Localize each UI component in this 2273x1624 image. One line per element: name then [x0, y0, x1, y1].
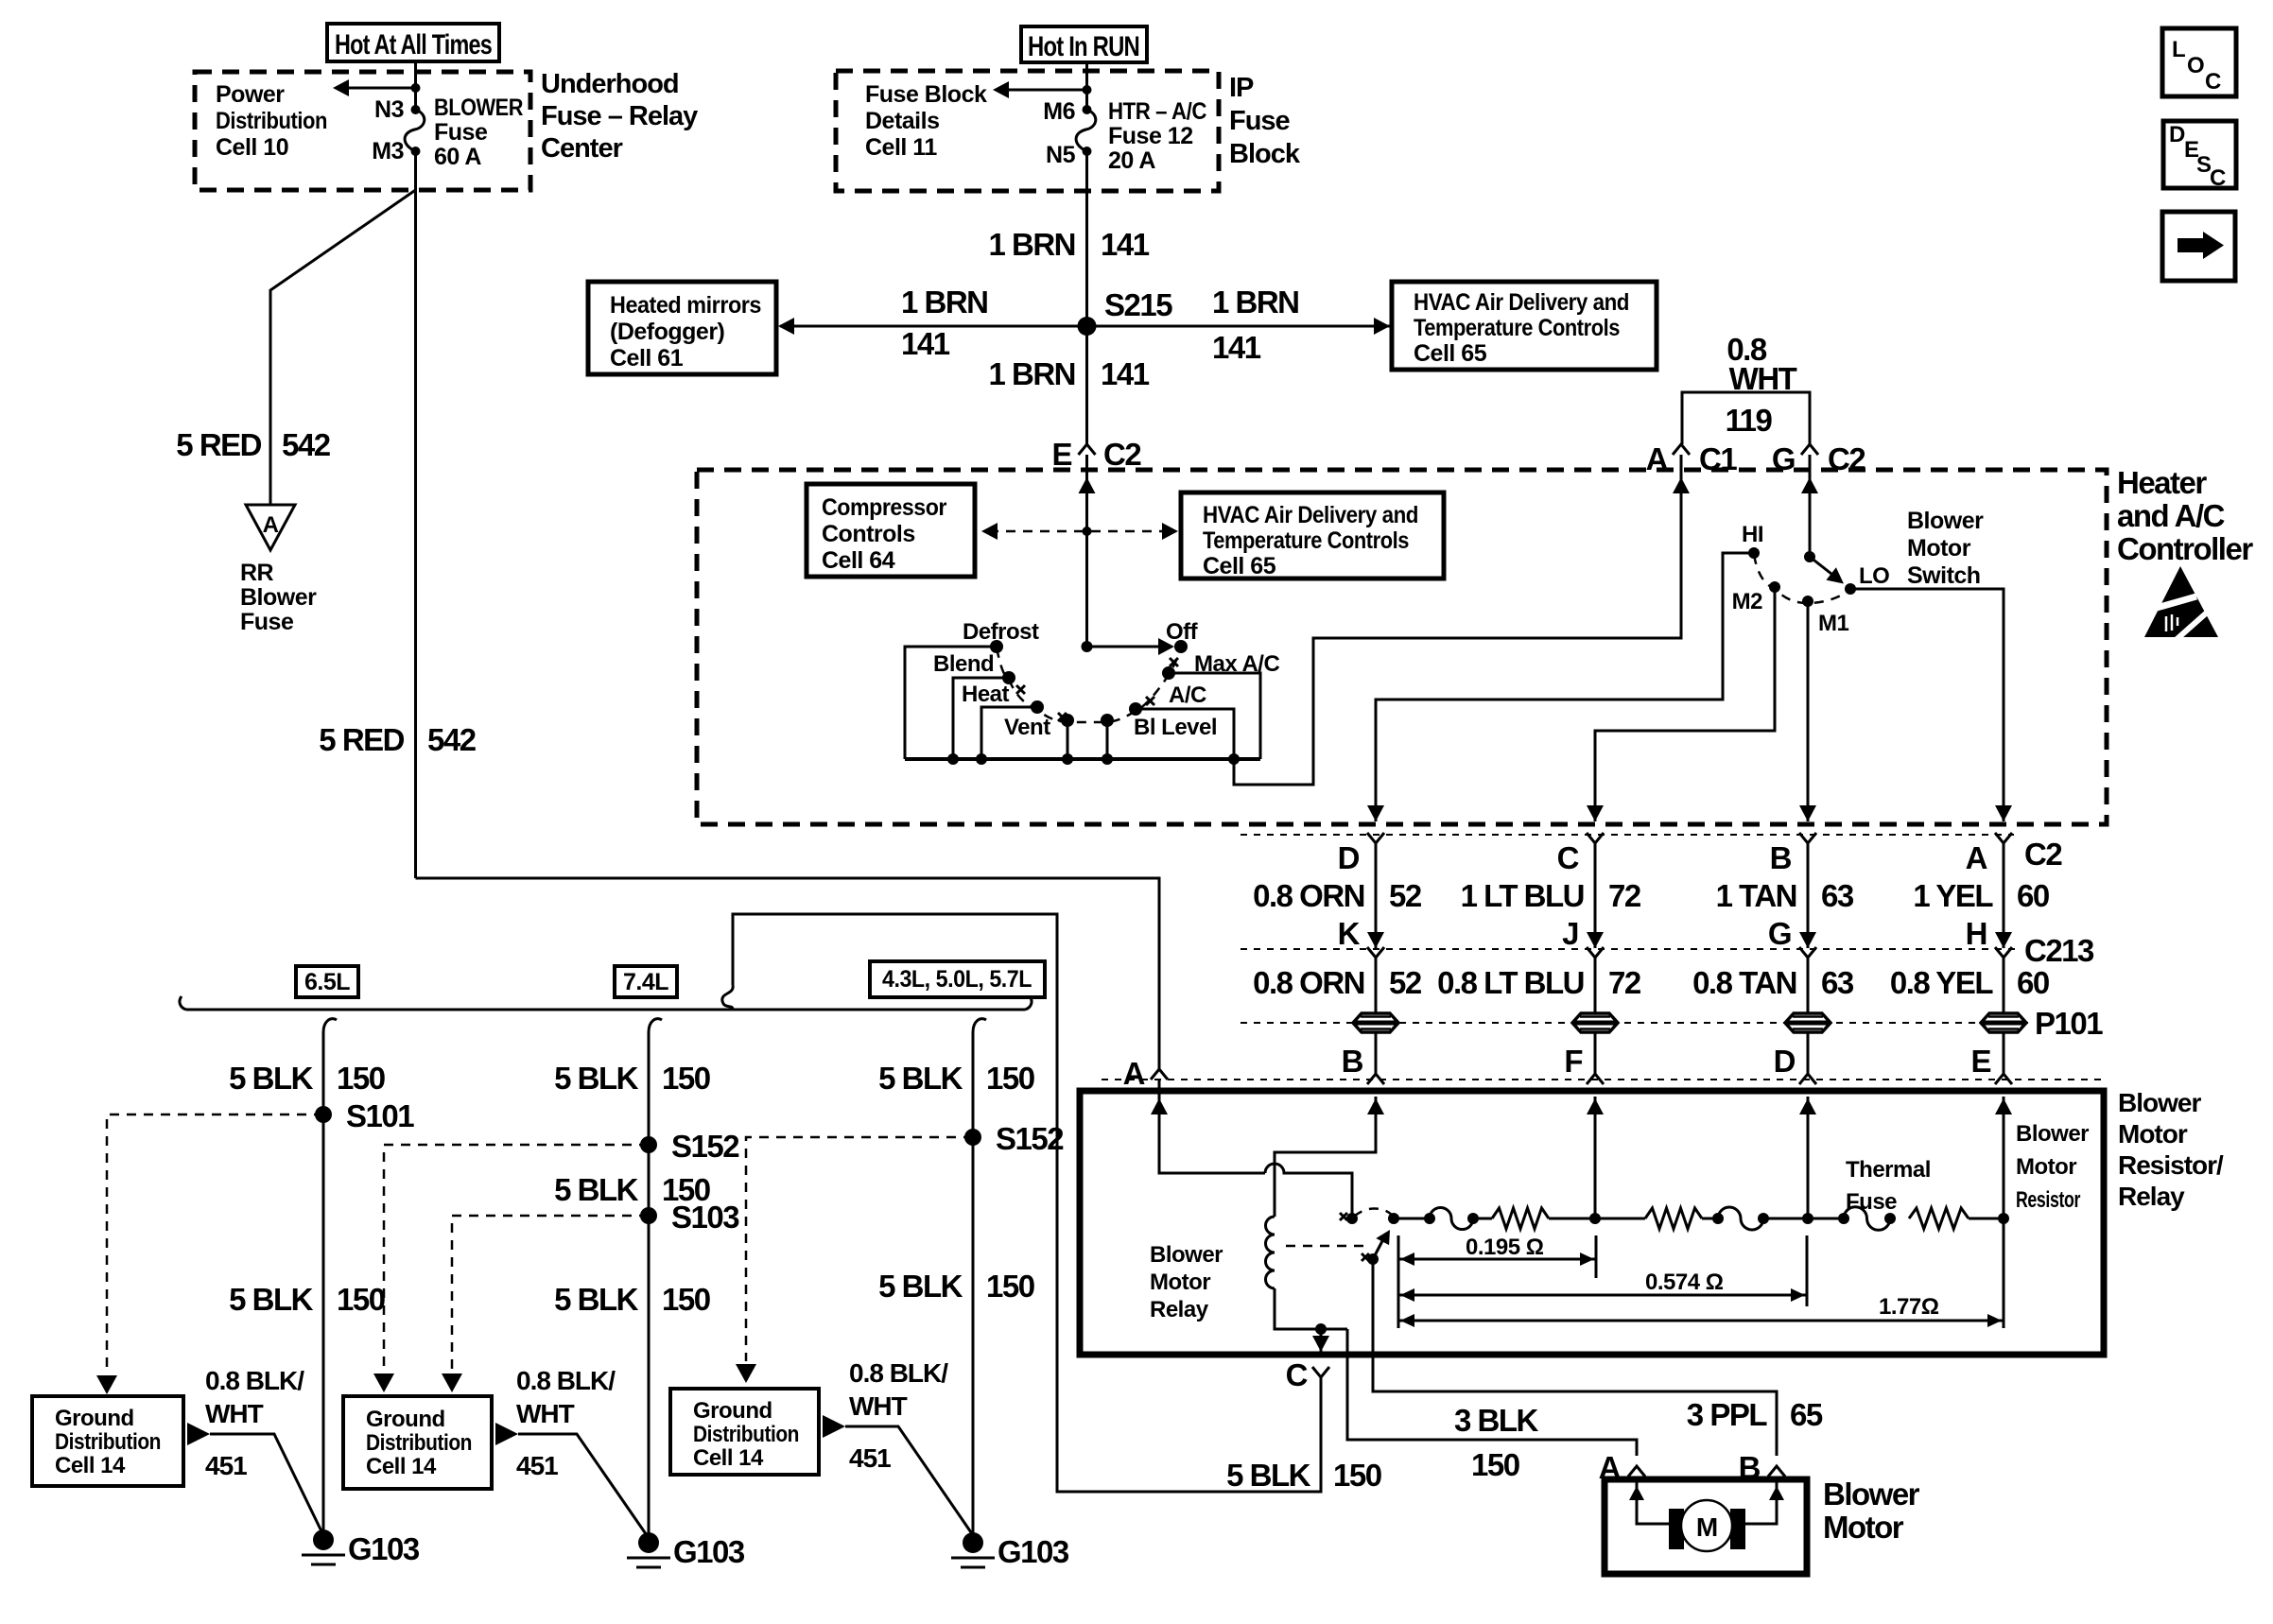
- svg-text:WHT: WHT: [1729, 361, 1797, 396]
- svg-text:0.8 BLK/: 0.8 BLK/: [516, 1366, 616, 1395]
- wire 0.8 BLK/WHT 451 from box 2 to G103: [495, 1423, 518, 1445]
- wire: [2003, 958, 2005, 1014]
- terminal F of blower resistor connector: [1594, 1031, 1597, 1074]
- svg-text:5 BLK: 5 BLK: [554, 1282, 639, 1317]
- wire: 4.3L ground drop with curl: [973, 1019, 986, 1032]
- Heater and A/C Controller dashed box: [697, 470, 2107, 824]
- svg-text:LO: LO: [1859, 563, 1889, 589]
- dashed wiper arc: [997, 648, 1181, 722]
- svg-text:Ground: Ground: [693, 1398, 772, 1424]
- svg-text:150: 150: [337, 1282, 385, 1317]
- svg-text:1 BRN: 1 BRN: [1212, 285, 1299, 320]
- svg-text:Heat: Heat: [962, 682, 1010, 707]
- mode switch wiper feed arrow to Off: [1082, 641, 1093, 652]
- relay coil: [1266, 1217, 1275, 1288]
- wiper x marks: [1016, 658, 1178, 721]
- wire: 6.5L ground drop with curl: [323, 1019, 337, 1032]
- wire: F into resistor chain: [1594, 1097, 1597, 1218]
- svg-text:1.77Ω: 1.77Ω: [1879, 1294, 1939, 1320]
- wire: resistor C terminal ground run (5 BLK): [733, 914, 1321, 1492]
- blower switch contact M2: [1769, 581, 1780, 593]
- svg-text:Bl Level: Bl Level: [1134, 715, 1217, 740]
- svg-text:1 LT BLU: 1 LT BLU: [1461, 878, 1584, 913]
- svg-text:60: 60: [2017, 965, 2049, 1000]
- svg-text:IP: IP: [1229, 73, 1254, 103]
- svg-text:Ground: Ground: [366, 1407, 445, 1432]
- label Underhood Fuse - Relay Center: [541, 69, 698, 164]
- svg-text:Temperature Controls: Temperature Controls: [1414, 315, 1620, 341]
- svg-text:Motor: Motor: [2016, 1154, 2076, 1180]
- svg-text:Cell 14: Cell 14: [366, 1454, 437, 1479]
- Ground Distribution Cell 14 box 2: [343, 1396, 492, 1489]
- svg-text:451: 451: [205, 1451, 247, 1480]
- svg-text:C: C: [1557, 840, 1579, 875]
- blower switch wiper pivot: [1804, 551, 1815, 562]
- blower switch contact M1: [1802, 596, 1813, 607]
- dimension 1.77 ohm: [1398, 1320, 2004, 1322]
- svg-text:Temperature Controls: Temperature Controls: [1203, 527, 1409, 554]
- svg-text:G103: G103: [348, 1531, 420, 1566]
- svg-text:1 BRN: 1 BRN: [988, 227, 1075, 262]
- svg-text:A: A: [263, 512, 279, 538]
- label 0.8 LT BLU 72: [1437, 965, 1641, 1000]
- svg-text:Blower: Blower: [240, 584, 317, 611]
- connector A (resistor box): [1151, 1069, 1168, 1080]
- label 3 BLK 150: [1454, 1403, 1539, 1482]
- svg-text:Distribution: Distribution: [366, 1430, 472, 1456]
- svg-text:451: 451: [516, 1451, 558, 1480]
- connector C2 row (thin dashed): [1241, 834, 2014, 836]
- label 5 RED 542 (main): [319, 722, 476, 757]
- label 1 BRN 141 (left of S215): [901, 285, 988, 361]
- grommet P101: [1785, 1013, 1831, 1032]
- splice S215: [1078, 317, 1097, 336]
- RR Blower Fuse triangle A: [246, 505, 295, 550]
- svg-text:(Defogger): (Defogger): [610, 319, 725, 345]
- svg-text:D: D: [2169, 122, 2185, 147]
- engine ground bus: [186, 1009, 1025, 1011]
- svg-text:S152: S152: [671, 1129, 739, 1164]
- svg-text:Cell 14: Cell 14: [693, 1445, 764, 1471]
- ground G103: [313, 1529, 334, 1550]
- svg-text:150: 150: [662, 1282, 710, 1317]
- svg-text:Center: Center: [541, 133, 623, 164]
- svg-text:BLOWER: BLOWER: [434, 95, 523, 121]
- svg-text:A: A: [1646, 441, 1668, 476]
- dashed contact throw arc: [1354, 1208, 1392, 1217]
- wire: mode switch bus output to connector A C1: [1234, 455, 1681, 785]
- svg-text:5 RED: 5 RED: [319, 722, 404, 757]
- label 1 LT BLU 72: [1461, 878, 1641, 913]
- wire: E/C2 into controller to mode switch wiper: [1085, 455, 1088, 647]
- svg-text:J: J: [1562, 916, 1578, 951]
- svg-text:20 A: 20 A: [1108, 147, 1155, 174]
- svg-text:C2: C2: [2024, 837, 2062, 872]
- label Heater and A/C Controller: [2117, 465, 2253, 566]
- svg-text:1 BRN: 1 BRN: [988, 356, 1075, 391]
- svg-text:Cell 10: Cell 10: [216, 134, 288, 161]
- svg-text:63: 63: [1821, 965, 1854, 1000]
- Power Distribution Cell 10 reference: [216, 81, 327, 161]
- svg-text:D: D: [1774, 1044, 1796, 1079]
- fuse HTR-A/C Fuse 12 20 A: [1076, 110, 1096, 151]
- svg-text:Motor: Motor: [1907, 535, 1971, 561]
- svg-text:0.8 BLK/: 0.8 BLK/: [205, 1366, 304, 1395]
- forward arrow legend box: [2162, 212, 2235, 281]
- svg-text:G: G: [1772, 441, 1795, 476]
- svg-text:52: 52: [1389, 965, 1422, 1000]
- svg-text:6.5L: 6.5L: [304, 969, 350, 995]
- relay fixed contact: [1346, 1213, 1358, 1224]
- ground G103: [963, 1532, 983, 1553]
- svg-text:0.8 ORN: 0.8 ORN: [1253, 965, 1364, 1000]
- IP Fuse Block dashed box: [836, 71, 1219, 191]
- terminal G of connector C213: [1799, 947, 1816, 958]
- wire: [1807, 958, 1810, 1014]
- wire: [1969, 1218, 2004, 1220]
- svg-text:150: 150: [1471, 1447, 1519, 1482]
- wire: D to C213 K: [1375, 843, 1378, 948]
- HVAC Air Delivery and Temperature Controls Cell 65 box (controller): [1181, 492, 1444, 579]
- HVAC Air Delivery and Temperature Controls Cell 65 box (top): [1392, 282, 1657, 370]
- Ground Distribution Cell 14 box 1: [32, 1396, 183, 1486]
- svg-text:0.8 LT BLU: 0.8 LT BLU: [1437, 965, 1584, 1000]
- svg-text:Defrost: Defrost: [963, 619, 1039, 645]
- connector G C2: [1801, 444, 1818, 455]
- svg-text:5 RED: 5 RED: [176, 427, 261, 462]
- svg-text:5 BLK: 5 BLK: [229, 1282, 314, 1317]
- svg-text:Fuse: Fuse: [1229, 106, 1291, 136]
- wire: LO to terminal A: [1850, 589, 2004, 821]
- blower switch contact HI: [1748, 547, 1760, 559]
- svg-text:7.4L: 7.4L: [623, 969, 668, 995]
- svg-text:Hot In RUN: Hot In RUN: [1028, 31, 1139, 62]
- svg-text:RR: RR: [240, 560, 274, 586]
- terminal K of connector C213: [1367, 947, 1384, 958]
- svg-text:C: C: [1286, 1357, 1308, 1392]
- svg-text:4.3L, 5.0L, 5.7L: 4.3L, 5.0L, 5.7L: [882, 966, 1032, 993]
- label Blower Motor Relay: [1150, 1242, 1223, 1322]
- svg-text:Fuse Block: Fuse Block: [865, 81, 987, 108]
- terminal E of blower resistor connector: [2003, 1031, 2005, 1074]
- mode switch contact A/C: [1129, 702, 1142, 716]
- wire: feed to Power Distribution (arrow left): [342, 87, 416, 90]
- label IP Fuse Block: [1229, 73, 1301, 169]
- wire: Heat to bus: [981, 707, 1037, 759]
- jumper 0.8 WHT 119 between C1 and C2: [1682, 392, 1810, 444]
- wire: S215 splice horizontal: [780, 325, 1390, 328]
- svg-text:150: 150: [662, 1061, 710, 1096]
- label Blower Motor Switch: [1907, 508, 1984, 589]
- svg-text:S152: S152: [996, 1121, 1064, 1156]
- svg-text:Cell 61: Cell 61: [610, 345, 684, 371]
- dashed relay linkage: [1286, 1245, 1367, 1248]
- wire: A/C to bus: [1136, 709, 1234, 759]
- wire: [1473, 1218, 1492, 1220]
- svg-text:Motor: Motor: [1823, 1510, 1904, 1545]
- Compressor Controls Cell 64 box: [807, 484, 975, 577]
- wire: [1394, 1218, 1430, 1220]
- svg-text:65: 65: [1790, 1397, 1823, 1432]
- ESD warning symbol: [2144, 566, 2218, 642]
- svg-text:Distribution: Distribution: [693, 1422, 799, 1447]
- arrow to C terminal: [1320, 1329, 1323, 1352]
- svg-text:150: 150: [1333, 1458, 1381, 1493]
- ground G103: [638, 1532, 659, 1553]
- svg-text:HVAC Air Delivery and: HVAC Air Delivery and: [1414, 289, 1629, 316]
- svg-text:60: 60: [2017, 878, 2049, 913]
- svg-text:Fuse: Fuse: [434, 119, 488, 146]
- resistor element 1: [1492, 1208, 1549, 1229]
- terminal C of connector C2: [1587, 833, 1604, 843]
- wire: C to C213 J: [1594, 843, 1597, 948]
- wire 0.8 BLK/WHT 451 from box 3 to G103: [823, 1415, 845, 1438]
- svg-text:0.574 Ω: 0.574 Ω: [1645, 1270, 1724, 1295]
- engine option box 7.4L: [615, 966, 677, 997]
- engine option box 6.5L: [296, 966, 358, 997]
- svg-text:Ground: Ground: [55, 1406, 134, 1431]
- svg-text:Motor: Motor: [2118, 1119, 2188, 1149]
- svg-text:72: 72: [1608, 878, 1641, 913]
- splice S103: [640, 1207, 657, 1224]
- thermal fuse element 3: [1838, 1213, 1849, 1224]
- node E junction: [1998, 1213, 2009, 1224]
- svg-text:Cell 11: Cell 11: [865, 134, 937, 161]
- terminal A of blower motor: [1628, 1466, 1645, 1477]
- junction node: [1315, 1323, 1327, 1335]
- wire: B to C213 G: [1807, 843, 1810, 948]
- wire: E below node: [2003, 1218, 2005, 1328]
- svg-text:1 TAN: 1 TAN: [1716, 878, 1796, 913]
- wire: Max A/C to bus: [1169, 673, 1260, 759]
- Fuse Block Details Cell 11 reference: [865, 81, 987, 161]
- svg-text:F: F: [1564, 1044, 1582, 1079]
- svg-text:N5: N5: [1046, 142, 1076, 168]
- svg-text:C213: C213: [2024, 933, 2094, 968]
- mode switch contact Defrost: [990, 640, 1003, 653]
- grommet P101: [1353, 1013, 1398, 1032]
- svg-text:5 BLK: 5 BLK: [229, 1061, 314, 1096]
- svg-text:5 BLK: 5 BLK: [1226, 1458, 1311, 1493]
- splice S152 (4.3L): [964, 1129, 981, 1146]
- svg-text:542: 542: [427, 722, 477, 757]
- svg-text:M6: M6: [1043, 98, 1075, 125]
- terminal B of connector C2: [1799, 833, 1816, 843]
- label Blower Motor: [1823, 1477, 1920, 1545]
- svg-text:G103: G103: [998, 1534, 1069, 1569]
- svg-text:141: 141: [1212, 330, 1261, 365]
- svg-text:1 YEL: 1 YEL: [1913, 878, 1993, 913]
- svg-text:5 BLK: 5 BLK: [878, 1269, 963, 1304]
- wire: [1702, 1218, 1718, 1220]
- svg-text:141: 141: [1101, 356, 1150, 391]
- svg-text:141: 141: [1101, 227, 1150, 262]
- DESC legend box: [2163, 121, 2236, 191]
- blower switch contact LO: [1845, 583, 1856, 595]
- svg-text:G: G: [1768, 916, 1791, 951]
- svg-text:WHT: WHT: [205, 1399, 264, 1428]
- svg-text:Heated mirrors: Heated mirrors: [610, 292, 761, 319]
- splice S101: [315, 1106, 332, 1123]
- svg-text:WHT: WHT: [516, 1399, 575, 1428]
- mode switch contact Blend: [1002, 671, 1015, 684]
- wire: M1 to terminal B: [1807, 601, 1810, 821]
- svg-text:Underhood: Underhood: [541, 69, 679, 99]
- terminal D of connector C2: [1367, 833, 1384, 843]
- svg-text:P101: P101: [2035, 1006, 2103, 1041]
- svg-text:141: 141: [901, 326, 950, 361]
- wire: G/C2 down to wiper pivot: [1809, 455, 1812, 557]
- svg-text:1 BRN: 1 BRN: [901, 285, 988, 320]
- svg-text:5 BLK: 5 BLK: [554, 1172, 639, 1207]
- wire: A terminal into motor: [1637, 1477, 1669, 1524]
- svg-text:Fuse: Fuse: [1846, 1189, 1897, 1215]
- node D junction: [1802, 1213, 1813, 1224]
- wire: relay arm to blower motor B (3 PPL): [1373, 1259, 1777, 1456]
- svg-text:150: 150: [986, 1269, 1034, 1304]
- svg-text:C1: C1: [1699, 441, 1737, 476]
- svg-text:72: 72: [1608, 965, 1641, 1000]
- svg-text:3 PPL: 3 PPL: [1687, 1397, 1768, 1432]
- label Thermal Fuse: [1846, 1157, 1931, 1215]
- wire: M2 to terminal C: [1595, 587, 1775, 821]
- wire: branch to RR Blower Fuse: [270, 190, 416, 505]
- resistor element 3: [1909, 1208, 1969, 1229]
- mode switch contact Max A/C: [1162, 666, 1175, 680]
- svg-text:0.8 YEL: 0.8 YEL: [1890, 965, 1993, 1000]
- svg-text:E: E: [1051, 437, 1071, 472]
- Heated mirrors (Defogger) Cell 61 box: [588, 282, 776, 374]
- label 5 BLK 150 (4.3L upper): [878, 1061, 1034, 1096]
- label 5 BLK 150 (7.4L upper): [554, 1061, 710, 1096]
- svg-text:Hot At All Times: Hot At All Times: [335, 29, 492, 60]
- wire: A into relay contact: [1159, 1080, 1265, 1173]
- grommet P101: [1981, 1013, 2026, 1032]
- svg-text:5 BLK: 5 BLK: [878, 1061, 963, 1096]
- node M3: [411, 147, 421, 156]
- svg-text:HVAC Air Delivery and: HVAC Air Delivery and: [1203, 502, 1418, 528]
- svg-text:HI: HI: [1742, 522, 1763, 547]
- label 5 BLK 150 (7.4L mid): [554, 1172, 710, 1207]
- label 1 BRN 141 (right of S215): [1212, 285, 1299, 365]
- label 1 BRN 141 (above S215): [988, 227, 1149, 262]
- mode switch common bus: [905, 757, 1260, 761]
- svg-text:S215: S215: [1104, 287, 1172, 322]
- wire: feed to Fuse Block Details (arrow left): [1002, 89, 1087, 92]
- label 1 BRN 141 (below S215): [988, 356, 1149, 391]
- label 1 TAN 63: [1716, 878, 1854, 913]
- svg-text:Fuse: Fuse: [240, 609, 294, 635]
- terminal B of blower resistor connector: [1375, 1031, 1378, 1074]
- dashed data link between Compressor Controls and HVAC boxes: [989, 530, 1175, 533]
- svg-text:Cell 64: Cell 64: [822, 547, 895, 574]
- svg-text:5 BLK: 5 BLK: [554, 1061, 639, 1096]
- svg-text:Fuse – Relay: Fuse – Relay: [541, 101, 698, 131]
- dashed switch arc: [1754, 555, 1848, 603]
- label Blower Motor Resistor/Relay: [2118, 1088, 2224, 1211]
- svg-text:Off: Off: [1166, 619, 1199, 645]
- terminal C of resistor box: [1312, 1367, 1329, 1377]
- svg-text:O: O: [2187, 53, 2204, 78]
- svg-text:451: 451: [849, 1443, 891, 1473]
- connector A C1: [1673, 444, 1690, 455]
- connector E C2 (controller): [1079, 444, 1096, 455]
- wire: Blend to bus: [953, 678, 1009, 759]
- label 1 YEL 60: [1913, 878, 2048, 913]
- svg-text:150: 150: [986, 1061, 1034, 1096]
- svg-text:0.195 Ω: 0.195 Ω: [1466, 1235, 1544, 1260]
- wire: [1594, 958, 1597, 1014]
- svg-text:Thermal: Thermal: [1846, 1157, 1931, 1183]
- mode switch contact Bi-Level mid: [1101, 714, 1114, 727]
- svg-text:Switch: Switch: [1907, 562, 1981, 589]
- dashed ground ref from S152: [384, 1145, 649, 1371]
- mode switch contact Off: [1174, 640, 1188, 653]
- connector C213 row (thin dashed): [1241, 948, 2016, 950]
- label Blower Motor Resistor (inside): [2016, 1121, 2089, 1213]
- svg-text:WHT: WHT: [849, 1391, 908, 1421]
- dimension 0.574 ohm: [1398, 1294, 1807, 1297]
- svg-text:Blower: Blower: [1907, 508, 1984, 534]
- wire: HI to terminal D: [1376, 553, 1754, 821]
- svg-text:Blend: Blend: [933, 651, 994, 677]
- svg-text:H: H: [1966, 916, 1987, 951]
- terminal A of connector C2: [1995, 833, 2012, 843]
- svg-text:0.8 BLK/: 0.8 BLK/: [849, 1358, 948, 1388]
- wire: B terminal into motor: [1745, 1477, 1777, 1524]
- dashed ground ref from S101: [107, 1114, 323, 1373]
- wire: fuse output down to S215 and on to controller: [1085, 151, 1088, 444]
- svg-text:S101: S101: [346, 1098, 414, 1133]
- wire: relay common to blower motor A (3 BLK): [1347, 1329, 1637, 1456]
- dashed ground ref from S152 (4.3L): [746, 1137, 973, 1361]
- wire: Vent to bus: [1067, 720, 1069, 759]
- svg-text:542: 542: [282, 427, 331, 462]
- svg-text:Fuse 12: Fuse 12: [1108, 123, 1193, 149]
- grommet line P101 (thin dashed): [1241, 1022, 2029, 1024]
- svg-text:A: A: [1966, 840, 1987, 875]
- svg-text:C: C: [2205, 69, 2221, 95]
- svg-text:E: E: [1970, 1044, 1990, 1079]
- Blower Motor Resistor/Relay box: [1080, 1091, 2104, 1355]
- grommet P101: [1572, 1013, 1618, 1032]
- svg-text:Blower: Blower: [1150, 1242, 1223, 1268]
- svg-text:Cell 65: Cell 65: [1414, 340, 1487, 367]
- svg-text:Blower: Blower: [1823, 1477, 1920, 1512]
- svg-text:0.8 TAN: 0.8 TAN: [1692, 965, 1796, 1000]
- resistor chain output node: [1388, 1213, 1399, 1224]
- svg-text:0.8 ORN: 0.8 ORN: [1253, 878, 1364, 913]
- svg-text:C: C: [2210, 165, 2226, 191]
- svg-text:63: 63: [1821, 878, 1854, 913]
- LOC legend box: [2162, 28, 2236, 96]
- svg-text:M: M: [1696, 1512, 1717, 1542]
- node M6: [1083, 85, 1092, 95]
- Underhood Fuse-Relay Center dashed box: [195, 72, 530, 190]
- svg-text:Controller: Controller: [2117, 531, 2253, 566]
- svg-text:Relay: Relay: [1150, 1297, 1209, 1322]
- svg-text:150: 150: [337, 1061, 385, 1096]
- mode switch contact Heat: [1031, 700, 1044, 714]
- svg-text:Resistor: Resistor: [2016, 1187, 2080, 1213]
- svg-text:Distribution: Distribution: [216, 108, 327, 134]
- svg-text:B: B: [1770, 840, 1792, 875]
- label 5 BLK 150 (resistor ground): [1226, 1458, 1381, 1493]
- node N5: [1083, 147, 1092, 156]
- svg-text:Heater: Heater: [2117, 465, 2207, 500]
- svg-text:A: A: [1123, 1056, 1145, 1091]
- label 5 BLK 150 (7.4L lower): [554, 1282, 710, 1317]
